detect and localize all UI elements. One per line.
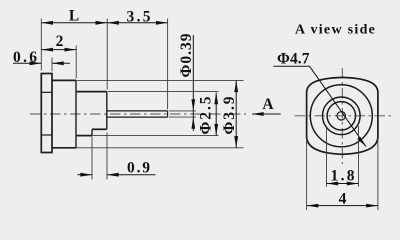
pin edge extension top [169,110,196,112]
arrow 0.9 right [107,173,119,177]
svg-text:Φ3.9: Φ3.9 [221,96,238,134]
A-view horizontal centerline [295,115,392,117]
extension line body face [106,19,108,90]
svg-text:0.6: 0.6 [13,49,37,66]
pin top edge [107,110,168,112]
dimension 0.6 right tail [52,62,70,64]
arrow phi3.9 bottom [234,136,238,148]
svg-text:L: L [69,8,79,25]
pin tip [167,111,169,117]
circle phi3.9 [310,85,372,147]
tip section bottom edge [92,128,107,130]
mid section bottom edge [76,135,92,137]
dimension L line [41,22,107,24]
pin edge extension bottom [169,116,196,118]
extension 1.8 left [326,126,328,187]
svg-text:Φ4.7: Φ4.7 [277,50,310,67]
arrow 3.5 left [107,21,119,25]
body bottom edge [52,147,77,149]
phi4.7 arrowhead [357,137,366,147]
extension 4 left [306,139,308,211]
arrow phi2.5 bottom [214,124,218,136]
arrow phi0.39 down [191,99,195,111]
A-view vertical centerline [341,68,343,164]
dimension line phi2.5 [215,93,217,136]
arrow phi3.9 top [234,80,238,92]
body top edge [52,79,76,81]
extension line flange right [51,58,53,72]
extension line 0.9 left [91,137,93,180]
pin circle [337,112,345,120]
svg-text:A: A [262,96,274,113]
arrow 0.9 left [80,173,92,177]
svg-text:Φ2.5: Φ2.5 [198,96,215,134]
svg-text:3.5: 3.5 [127,8,151,25]
dimension 0.6 leader line [13,62,41,64]
extension 4 right [377,139,379,211]
arrow 2 left [41,48,53,52]
mid section top edge [76,91,107,93]
centerline of side view [30,113,246,115]
arrow 1.8 left [327,182,339,186]
extension line 2 right [75,46,77,79]
extension line 0.9 right [106,133,108,180]
svg-text:4: 4 [339,191,347,208]
flange outer shape (circle with side flats) [307,77,378,154]
arrow phi0.39 up [191,117,195,129]
circle phi1.8 [327,102,355,130]
dimension 0.9 right tail [107,174,156,176]
arrow 0.6 right [52,61,64,65]
phi4.7 leader diagonal [310,66,367,146]
svg-text:Φ0.39: Φ0.39 [178,33,195,77]
arrow 2 right [65,48,77,52]
arrow 0.6 left [30,61,42,65]
arrow 1.8 right [347,182,359,186]
dimension 2 line [41,49,76,51]
extension 1.8 right [358,126,360,187]
arrow 4 right [366,204,378,208]
pin bottom edge [107,116,168,118]
circle phi2.5 [323,97,361,135]
A view arrow line [252,113,281,115]
arrow L right [96,21,108,25]
body step vertical [75,80,77,147]
flange inner line bottom [41,134,52,136]
dimension line phi3.9 [235,80,237,147]
extension line left (flange left) [40,19,42,71]
extension phi3.9 bottom [77,147,244,149]
extension phi2.5 top [108,91,219,93]
svg-text:0.9: 0.9 [127,160,150,177]
body face vertical [106,92,108,130]
phi4.7 leader underline [273,65,309,67]
dimension 1.8 line [327,183,359,185]
dimension 4 line [307,205,378,207]
flange inner line top [41,91,52,93]
extension phi3.9 top [77,79,244,81]
arrow 3.5 right [156,21,168,25]
extension phi2.5 bottom [93,135,219,137]
arrow L left [41,21,53,25]
dimension 0.9 left tail [78,174,93,176]
svg-text:1.8: 1.8 [331,168,355,185]
flange outline [41,74,52,153]
dimension line phi0.39 [192,35,194,131]
extension line pin tip [167,19,169,110]
small step vertical [91,129,93,135]
arrow phi2.5 top [214,93,218,105]
svg-text:A view side: A view side [295,22,376,37]
dimension 3.5 line [107,22,167,24]
arrow 4 left [307,204,319,208]
A view arrowhead [252,112,264,116]
svg-text:2: 2 [56,33,64,50]
